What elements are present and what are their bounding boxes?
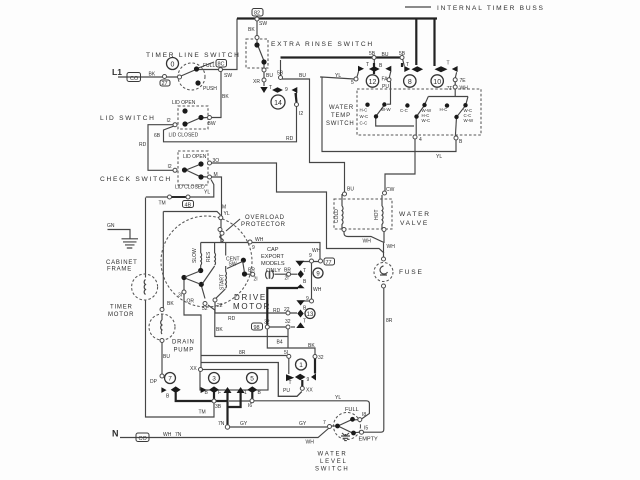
svg-text:XX: XX xyxy=(306,388,313,394)
svg-text:SWITCH: SWITCH xyxy=(326,121,354,127)
svg-text:8: 8 xyxy=(408,79,412,86)
svg-text:WH: WH xyxy=(163,432,172,438)
svg-text:T: T xyxy=(303,319,306,325)
svg-text:3: 3 xyxy=(212,376,216,383)
svg-text:WATER: WATER xyxy=(329,105,354,111)
svg-text:13: 13 xyxy=(307,312,314,318)
svg-text:CHECK SWITCH: CHECK SWITCH xyxy=(100,176,172,183)
svg-text:C-C: C-C xyxy=(400,108,408,113)
svg-text:7: 7 xyxy=(323,420,326,426)
svg-text:W-W: W-W xyxy=(464,118,475,123)
svg-text:PUMP: PUMP xyxy=(174,348,195,354)
svg-text:FUSE: FUSE xyxy=(399,269,424,276)
svg-text:PROTECTOR: PROTECTOR xyxy=(241,222,286,228)
svg-text:PUSH: PUSH xyxy=(203,86,217,92)
svg-text:CAP: CAP xyxy=(267,247,279,253)
svg-text:VALVE: VALVE xyxy=(400,220,429,227)
svg-text:RD: RD xyxy=(228,316,236,322)
svg-text:22: 22 xyxy=(217,303,223,309)
svg-text:EXTRA RINSE SWITCH: EXTRA RINSE SWITCH xyxy=(271,41,374,48)
svg-text:WH: WH xyxy=(255,237,264,243)
svg-text:BK: BK xyxy=(248,27,255,33)
svg-text:YL: YL xyxy=(204,190,210,196)
svg-text:XR: XR xyxy=(253,79,260,85)
svg-text:9: 9 xyxy=(306,296,309,302)
svg-text:WH: WH xyxy=(312,248,321,254)
svg-text:LID OPEN: LID OPEN xyxy=(183,154,207,160)
svg-text:BW: BW xyxy=(208,121,216,127)
svg-text:OVERLOAD: OVERLOAD xyxy=(245,215,285,221)
svg-text:BU: BU xyxy=(347,187,354,193)
svg-text:INTERNAL TIMER BUSS: INTERNAL TIMER BUSS xyxy=(437,5,545,12)
svg-text:82: 82 xyxy=(254,11,260,17)
svg-text:3I: 3I xyxy=(178,293,182,299)
svg-text:I8: I8 xyxy=(362,412,366,418)
svg-text:M: M xyxy=(214,172,218,178)
svg-text:W-C: W-C xyxy=(422,118,431,123)
svg-text:RD: RD xyxy=(286,136,294,142)
svg-text:PU: PU xyxy=(382,84,389,90)
svg-text:SLOW: SLOW xyxy=(192,248,198,263)
svg-text:27: 27 xyxy=(162,81,168,87)
svg-text:0: 0 xyxy=(171,62,175,69)
svg-text:T: T xyxy=(366,62,369,68)
svg-text:GY: GY xyxy=(299,421,307,427)
svg-text:H-C: H-C xyxy=(440,107,448,112)
svg-text:RES: RES xyxy=(206,251,212,262)
svg-text:5: 5 xyxy=(250,376,254,383)
svg-text:WATER: WATER xyxy=(318,452,348,458)
svg-text:YL: YL xyxy=(224,211,230,217)
svg-text:W-C: W-C xyxy=(360,114,369,119)
svg-text:BK: BK xyxy=(308,343,315,349)
svg-text:TIMER: TIMER xyxy=(110,305,133,311)
svg-text:T: T xyxy=(269,85,272,91)
svg-text:14: 14 xyxy=(274,100,282,107)
svg-text:SW: SW xyxy=(229,262,237,268)
svg-text:2I: 2I xyxy=(285,276,289,282)
svg-text:HOT: HOT xyxy=(374,209,380,220)
svg-text:7N: 7N xyxy=(175,432,182,438)
svg-text:B4: B4 xyxy=(277,340,283,346)
svg-text:YL: YL xyxy=(436,154,442,160)
svg-text:I6: I6 xyxy=(248,403,252,409)
svg-text:YL: YL xyxy=(335,395,341,401)
svg-text:BU: BU xyxy=(163,354,170,360)
svg-text:BU: BU xyxy=(382,52,389,58)
svg-text:9: 9 xyxy=(285,87,288,93)
svg-text:I2: I2 xyxy=(168,164,172,170)
svg-text:LID CLOSED: LID CLOSED xyxy=(169,133,199,139)
svg-text:5B: 5B xyxy=(399,51,406,57)
svg-text:5: 5 xyxy=(351,80,354,86)
svg-text:TM: TM xyxy=(199,410,206,416)
svg-text:I2: I2 xyxy=(167,118,171,124)
svg-text:WH: WH xyxy=(363,239,372,245)
svg-text:FRAME: FRAME xyxy=(107,267,132,273)
svg-text:WH: WH xyxy=(387,244,396,250)
svg-text:5B: 5B xyxy=(277,71,284,77)
svg-text:W-W: W-W xyxy=(381,107,392,112)
svg-text:BU: BU xyxy=(299,73,306,79)
svg-text:DRIVE: DRIVE xyxy=(234,293,267,302)
svg-text:N: N xyxy=(112,429,119,439)
svg-text:MOTOR: MOTOR xyxy=(108,312,134,318)
svg-text:TM: TM xyxy=(159,201,166,207)
svg-text:3O: 3O xyxy=(213,158,220,164)
svg-text:8C: 8C xyxy=(218,62,225,68)
svg-text:H-C: H-C xyxy=(360,108,368,113)
svg-text:DP: DP xyxy=(150,379,158,385)
svg-text:77: 77 xyxy=(326,260,332,266)
svg-text:BR: BR xyxy=(248,268,255,274)
svg-text:3B: 3B xyxy=(215,404,222,410)
svg-text:7T: 7T xyxy=(447,86,453,92)
svg-text:OR: OR xyxy=(187,299,195,305)
svg-text:LID OPEN: LID OPEN xyxy=(172,100,196,106)
svg-text:EXPORT: EXPORT xyxy=(261,254,284,260)
svg-text:8R: 8R xyxy=(239,350,246,356)
svg-text:WH: WH xyxy=(306,440,315,446)
svg-text:4B: 4B xyxy=(185,203,192,209)
svg-text:START: START xyxy=(220,274,226,290)
svg-text:FULL: FULL xyxy=(203,63,215,69)
svg-text:CO: CO xyxy=(139,436,148,442)
svg-text:F: F xyxy=(218,390,221,396)
svg-text:EMPTY: EMPTY xyxy=(359,437,379,443)
svg-text:5B: 5B xyxy=(369,51,376,57)
svg-text:9: 9 xyxy=(252,245,255,251)
svg-text:M: M xyxy=(222,205,226,211)
svg-text:FULL: FULL xyxy=(345,407,359,413)
svg-text:12: 12 xyxy=(369,79,377,86)
svg-text:7N: 7N xyxy=(218,421,225,427)
svg-text:YL: YL xyxy=(335,73,341,79)
svg-text:GY: GY xyxy=(240,421,248,427)
svg-text:LEVEL: LEVEL xyxy=(320,459,348,465)
svg-text:BK: BK xyxy=(149,72,156,78)
svg-text:T: T xyxy=(447,61,450,67)
svg-text:1: 1 xyxy=(299,362,303,369)
svg-text:32: 32 xyxy=(318,355,324,361)
svg-text:COLD: COLD xyxy=(334,209,340,223)
svg-text:22: 22 xyxy=(284,307,290,313)
svg-text:T: T xyxy=(289,380,292,386)
svg-text:RD: RD xyxy=(139,142,147,148)
svg-text:WATER: WATER xyxy=(399,211,431,218)
svg-text:T: T xyxy=(303,268,306,274)
svg-text:C-C: C-C xyxy=(360,120,368,125)
svg-text:7: 7 xyxy=(168,376,172,383)
svg-text:ONLY: ONLY xyxy=(266,268,281,274)
svg-text:2I: 2I xyxy=(254,277,258,283)
svg-text:8R: 8R xyxy=(386,318,393,324)
svg-text:7E: 7E xyxy=(460,78,467,84)
svg-text:98: 98 xyxy=(254,325,260,331)
svg-text:TEMP: TEMP xyxy=(331,113,351,119)
svg-text:9: 9 xyxy=(307,377,310,383)
svg-text:I2: I2 xyxy=(299,111,303,117)
svg-text:5I: 5I xyxy=(284,350,288,356)
svg-text:MODELS: MODELS xyxy=(261,261,285,267)
svg-text:XX: XX xyxy=(190,366,197,372)
svg-text:T: T xyxy=(406,62,409,68)
svg-text:BR: BR xyxy=(284,268,291,274)
svg-text:RD: RD xyxy=(273,308,281,314)
svg-text:WH: WH xyxy=(460,86,469,92)
svg-text:LID SWITCH: LID SWITCH xyxy=(100,115,156,122)
svg-text:CO: CO xyxy=(130,76,139,82)
svg-text:L1: L1 xyxy=(112,67,122,77)
svg-text:32: 32 xyxy=(264,320,270,326)
svg-text:4: 4 xyxy=(419,137,422,143)
svg-text:SW: SW xyxy=(259,21,267,27)
svg-text:SW: SW xyxy=(224,73,232,79)
svg-text:BK: BK xyxy=(216,327,223,333)
svg-text:6B: 6B xyxy=(154,133,161,139)
svg-text:BK: BK xyxy=(222,94,229,100)
svg-text:I5: I5 xyxy=(364,426,368,432)
svg-text:BK: BK xyxy=(167,301,174,307)
svg-text:MOTOR: MOTOR xyxy=(233,302,271,311)
svg-text:SWITCH: SWITCH xyxy=(315,467,349,473)
svg-text:WH: WH xyxy=(313,287,322,293)
svg-text:LID CLOSED: LID CLOSED xyxy=(175,185,205,191)
svg-text:CABINET: CABINET xyxy=(106,260,138,266)
svg-text:PU: PU xyxy=(283,388,290,394)
svg-text:52: 52 xyxy=(202,306,208,312)
svg-text:10: 10 xyxy=(433,79,441,86)
svg-text:GN: GN xyxy=(107,223,115,229)
svg-text:DRAIN: DRAIN xyxy=(172,340,195,346)
svg-text:CW: CW xyxy=(386,187,395,193)
svg-text:BU: BU xyxy=(266,73,273,79)
svg-text:1: 1 xyxy=(244,390,247,396)
svg-text:FA: FA xyxy=(382,77,389,83)
svg-text:32: 32 xyxy=(285,319,291,325)
svg-text:TIMER LINE SWITCH: TIMER LINE SWITCH xyxy=(146,52,241,59)
